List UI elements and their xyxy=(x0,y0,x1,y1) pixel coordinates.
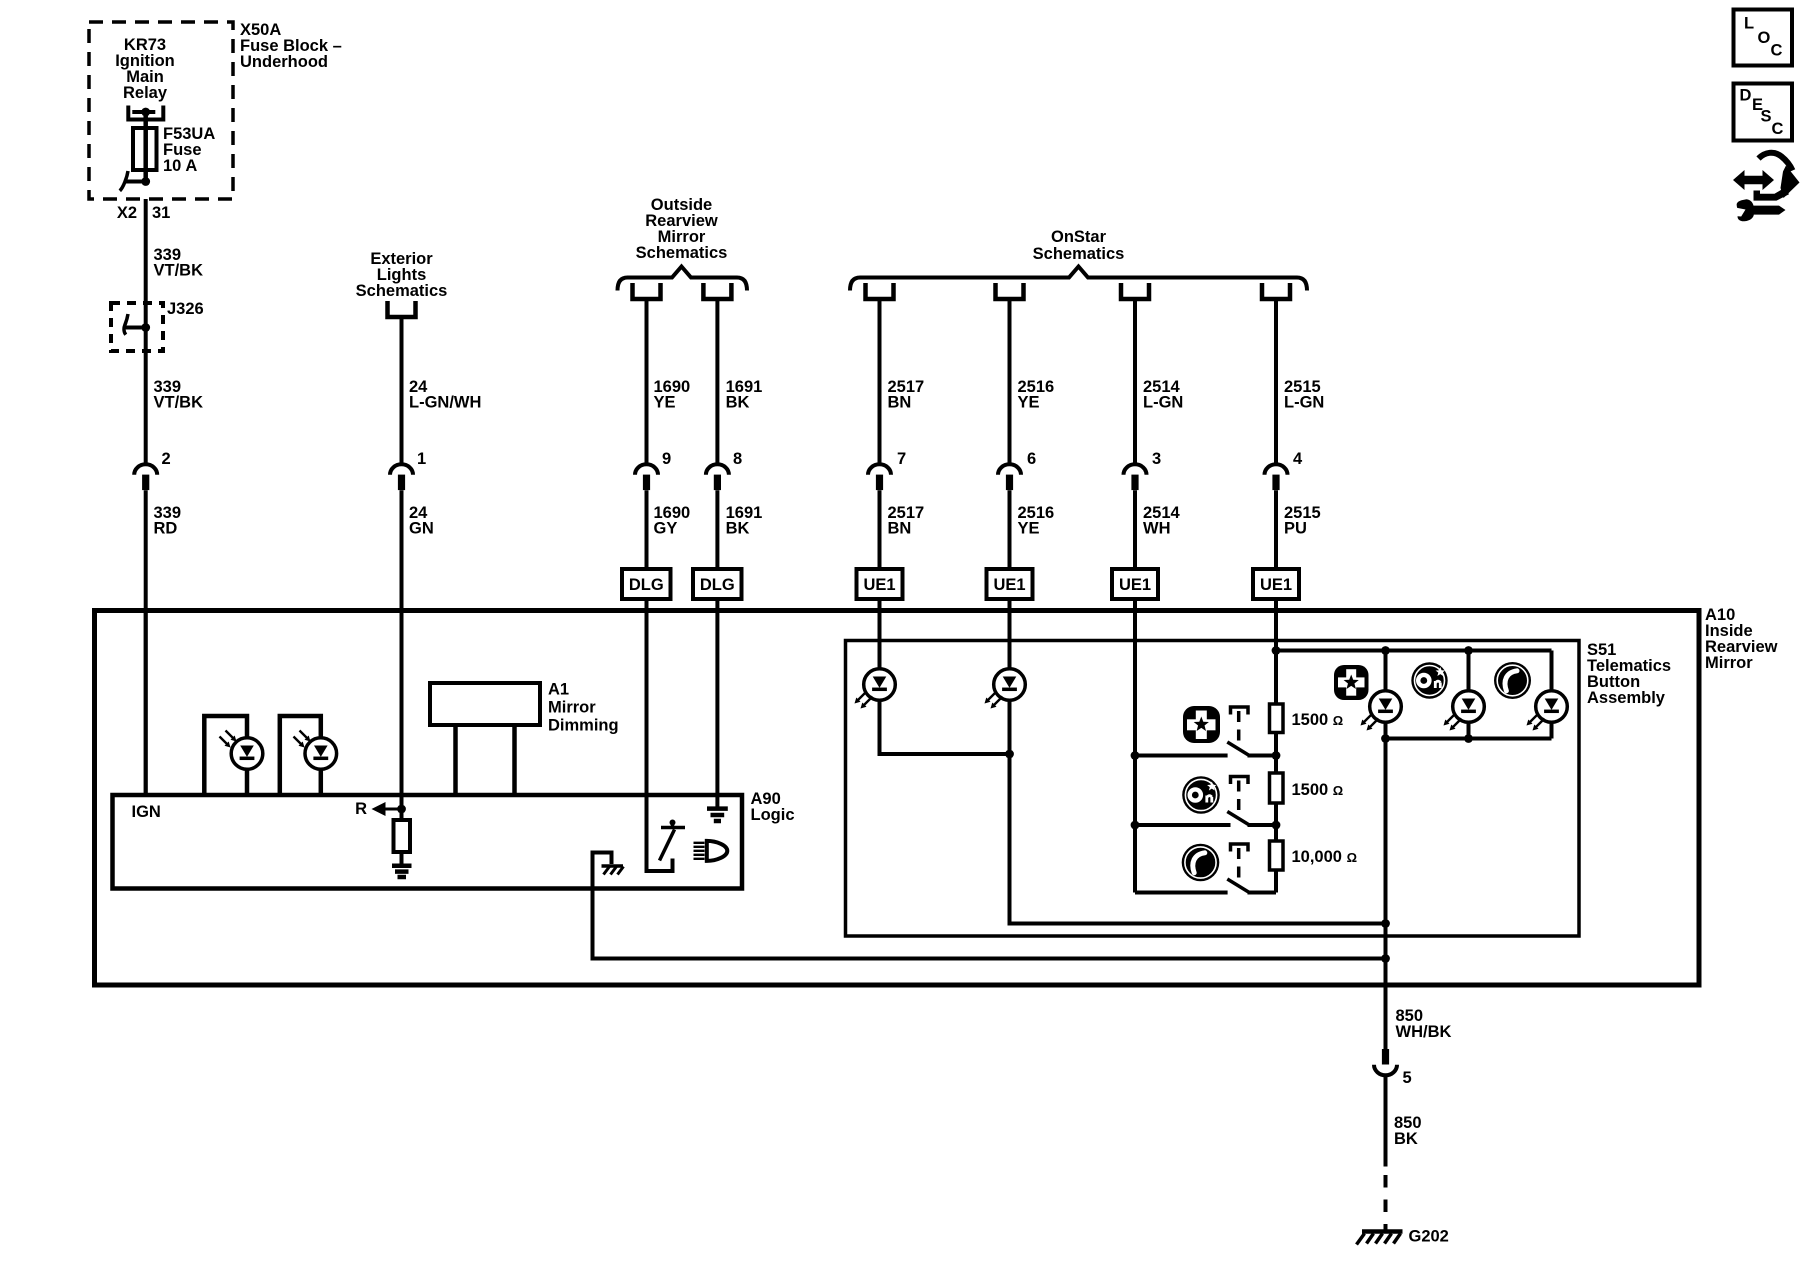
A90 logic box xyxy=(113,795,743,889)
fuse F53UA xyxy=(133,128,157,170)
connector DLG 1 xyxy=(622,569,671,599)
svg-text:Mirror: Mirror xyxy=(548,699,596,717)
connector pin 5 xyxy=(1374,1049,1397,1075)
brace mirror schematics xyxy=(618,267,748,291)
connector UE1 1 xyxy=(857,569,903,599)
LED 1 emit arrows xyxy=(855,692,873,709)
wire 2515 PU xyxy=(1274,490,1278,569)
node bus dot 1 xyxy=(1131,751,1140,760)
svg-text:C: C xyxy=(1772,120,1784,138)
photodiode PD2 housing xyxy=(280,716,321,795)
wire 2517 BN lower xyxy=(878,490,882,569)
wire 2516 into S51 xyxy=(1008,599,1012,669)
X50A fuse block name xyxy=(240,21,342,71)
connector pin 8 xyxy=(706,464,729,490)
resistor 1500 ohm 2 xyxy=(1270,773,1284,803)
wire 2516 YE xyxy=(1008,299,1012,465)
ground in A90 right xyxy=(707,809,728,821)
resistor in A90 xyxy=(400,813,404,820)
wire into mirror 1 xyxy=(647,599,673,871)
svg-text:PU: PU xyxy=(1284,520,1307,538)
wire IGN into A90 xyxy=(144,613,148,795)
headlamp icon in A90 xyxy=(694,841,728,861)
wire 2515 L-GN xyxy=(1274,299,1278,465)
DESC icon box xyxy=(1734,84,1793,141)
node LED2 junction xyxy=(1005,750,1014,759)
telltale icon phone xyxy=(1494,662,1531,699)
A1 mirror dimming box xyxy=(430,683,540,725)
svg-text:VT/BK: VT/BK xyxy=(154,262,204,280)
A10 labels xyxy=(1705,606,1778,672)
LED top rail xyxy=(1276,649,1552,653)
svg-text:L-GN: L-GN xyxy=(1143,394,1183,412)
svg-text:VT/BK: VT/BK xyxy=(154,394,204,412)
label 2517 BN xyxy=(888,378,925,412)
svg-text:BK: BK xyxy=(726,520,750,538)
resistor 10000 ohm xyxy=(1270,841,1284,870)
svg-text:7: 7 xyxy=(897,450,906,468)
ground in A90 under resistor xyxy=(392,866,412,877)
chassis ground wire from A90 to S51 xyxy=(593,853,1386,959)
LED 2 emit arrows xyxy=(985,692,1003,709)
fuse block X50A dashed box xyxy=(89,22,233,199)
splice clip symbol xyxy=(124,314,151,335)
node LED rail junction xyxy=(1272,646,1281,655)
label 2516 YE lower xyxy=(1018,504,1055,538)
svg-text:Dimming: Dimming xyxy=(548,717,619,735)
A10 inside rearview mirror box xyxy=(95,611,1700,986)
off-page bracket 2515 xyxy=(1262,283,1290,299)
connector pin 2 xyxy=(134,464,157,490)
label 339 RD xyxy=(154,504,182,538)
svg-text:Assembly: Assembly xyxy=(1587,689,1666,707)
wire 2514 WH xyxy=(1133,490,1137,569)
button 1 icon xyxy=(1183,706,1220,743)
LED 1 arrows xyxy=(1361,714,1379,731)
off-page bracket 1690 xyxy=(633,283,661,299)
LED indicator 1 xyxy=(1370,691,1402,723)
R arrow xyxy=(372,802,402,816)
svg-text:Schematics: Schematics xyxy=(636,244,728,262)
svg-text:1500 Ω: 1500 Ω xyxy=(1292,781,1344,799)
svg-text:BK: BK xyxy=(1394,1130,1418,1148)
switch 1 xyxy=(1227,707,1276,756)
svg-text:Logic: Logic xyxy=(751,806,795,824)
node chain dot 2 xyxy=(1272,821,1281,830)
LED 2 arrows xyxy=(1444,714,1462,731)
switch 2 xyxy=(1227,777,1276,826)
telltale icon OnStar xyxy=(1411,662,1447,698)
svg-text:L: L xyxy=(1744,15,1754,33)
telltale icon cross xyxy=(1334,665,1369,700)
svg-text:BN: BN xyxy=(888,394,912,412)
svg-text:RD: RD xyxy=(154,520,178,538)
connector pin 9 xyxy=(635,464,658,490)
chassis ground branch xyxy=(591,853,612,865)
connector pin 7 xyxy=(868,464,891,490)
svg-text:2: 2 xyxy=(162,450,171,468)
resistor 1500 ohm 1 xyxy=(1270,704,1284,733)
wire 1690 GY xyxy=(645,490,649,569)
A1 labels xyxy=(548,681,619,735)
svg-text:DLG: DLG xyxy=(629,576,664,594)
svg-text:Relay: Relay xyxy=(123,84,168,102)
label 24 L-GN/WH xyxy=(409,378,481,412)
connector pin 3 xyxy=(1124,464,1147,490)
svg-text:L-GN: L-GN xyxy=(1284,394,1324,412)
S51 telematics button assembly box xyxy=(846,641,1580,937)
svg-text:10,000 Ω: 10,000 Ω xyxy=(1292,848,1358,866)
mirror fold switch in A90 xyxy=(660,820,686,861)
svg-text:A1: A1 xyxy=(548,681,569,699)
svg-text:BK: BK xyxy=(726,394,750,412)
svg-text:C: C xyxy=(1771,42,1783,60)
wire 24 GN xyxy=(400,490,404,809)
svg-text:GY: GY xyxy=(654,520,678,538)
LED backlight 1 xyxy=(864,669,896,701)
svg-text:R: R xyxy=(355,800,367,818)
dashed wire to ground xyxy=(1384,1175,1388,1231)
chassis ground symbol xyxy=(602,866,624,875)
svg-text:WH: WH xyxy=(1143,520,1171,538)
wire LED1 to LED2 xyxy=(880,700,1010,754)
OnStar Schematics header xyxy=(1033,228,1125,263)
svg-text:L-GN/WH: L-GN/WH xyxy=(409,394,481,412)
label 1690 GY xyxy=(654,504,691,538)
svg-text:D: D xyxy=(1740,87,1752,105)
svg-text:UE1: UE1 xyxy=(863,576,895,594)
label 2514 L-GN xyxy=(1143,378,1183,412)
connector DLG 2 xyxy=(693,569,742,599)
wire LED2 down and right xyxy=(1010,700,1386,923)
LED indicator 2 drop xyxy=(1467,651,1471,691)
switch row 1 rail xyxy=(1135,754,1228,758)
wire 339 RD xyxy=(144,490,148,795)
off-page bracket 2517 xyxy=(866,283,894,299)
Outside Rearview Mirror Schematics header xyxy=(636,196,728,262)
svg-text:3: 3 xyxy=(1152,450,1161,468)
photodiode PD2 xyxy=(305,738,337,770)
off-page bracket 1691 xyxy=(703,283,731,299)
svg-text:5: 5 xyxy=(1403,1069,1412,1087)
svg-text:Mirror: Mirror xyxy=(1705,654,1753,672)
svg-text:YE: YE xyxy=(1018,520,1040,538)
wire 2517 BN xyxy=(878,299,882,465)
connector pin 6 xyxy=(998,464,1021,490)
fuse block labels xyxy=(115,36,175,102)
photodiode PD1 xyxy=(231,738,263,770)
svg-text:Schematics: Schematics xyxy=(1033,245,1125,263)
svg-text:10 A: 10 A xyxy=(163,157,197,175)
button 2 icon OnStar xyxy=(1182,776,1220,814)
svg-text:YE: YE xyxy=(1018,394,1040,412)
connector pin 4 xyxy=(1265,464,1288,490)
node R junction xyxy=(397,805,406,814)
wire 1691 BK lower xyxy=(715,490,719,569)
label 850 BK xyxy=(1394,1114,1422,1148)
svg-text:J326: J326 xyxy=(167,300,204,318)
wire 850 BK xyxy=(1384,1076,1388,1167)
navigation arrow icon xyxy=(1733,153,1800,201)
switch row 3 rail xyxy=(1135,891,1228,895)
node 850 junction 2 xyxy=(1381,954,1390,963)
connector UE1 3 xyxy=(1112,569,1158,599)
relay KR73 contact xyxy=(128,106,163,120)
LED indicator 3 drop xyxy=(1550,651,1554,691)
label 2514 WH xyxy=(1143,504,1181,538)
svg-text:UE1: UE1 xyxy=(1260,576,1292,594)
svg-text:1: 1 xyxy=(417,450,426,468)
svg-text:4: 4 xyxy=(1293,450,1303,468)
svg-text:8: 8 xyxy=(733,450,742,468)
svg-text:Underhood: Underhood xyxy=(240,53,328,71)
svg-text:UE1: UE1 xyxy=(1119,576,1151,594)
svg-text:YE: YE xyxy=(654,394,676,412)
S51 labels xyxy=(1587,641,1671,707)
wire 2514 L-GN xyxy=(1133,299,1137,465)
LOC icon box xyxy=(1734,10,1793,66)
svg-text:GN: GN xyxy=(409,520,434,538)
switch row 2 rail xyxy=(1135,823,1231,827)
LED bottom rail xyxy=(1386,737,1552,741)
wire 2515 resistor chain top xyxy=(1274,599,1278,704)
wire 850 main drop xyxy=(1384,739,1388,1050)
label 24 GN xyxy=(409,504,434,538)
label 339 VT/BK lower xyxy=(154,378,204,412)
svg-text:O: O xyxy=(1758,29,1771,47)
label 1691 BK xyxy=(726,378,763,412)
ground G202 xyxy=(1357,1232,1403,1245)
svg-text:IGN: IGN xyxy=(132,803,161,821)
svg-text:DLG: DLG xyxy=(700,576,735,594)
node 850 junction 1 xyxy=(1381,919,1390,928)
label 2515 PU xyxy=(1284,504,1321,538)
label 2516 YE xyxy=(1018,378,1055,412)
label 2515 L-GN xyxy=(1284,378,1324,412)
off-page bracket 2514 xyxy=(1121,283,1149,299)
wire 2517 into S51 xyxy=(878,599,882,669)
button 3 icon phone xyxy=(1182,844,1220,882)
svg-text:1500 Ω: 1500 Ω xyxy=(1292,711,1344,729)
off-page bracket wire 24 xyxy=(388,301,416,317)
LED 3 arrows xyxy=(1527,714,1545,731)
svg-text:X2: X2 xyxy=(117,204,137,222)
brace OnStar schematics xyxy=(850,267,1307,291)
terminal clip 31 xyxy=(120,171,150,191)
svg-text:Schematics: Schematics xyxy=(356,282,448,300)
wrench icon xyxy=(1737,199,1786,221)
svg-text:6: 6 xyxy=(1027,450,1036,468)
LED indicator 1 drop xyxy=(1384,651,1388,691)
wire 24 L-GN/WH xyxy=(400,317,404,465)
svg-text:31: 31 xyxy=(152,204,170,222)
photodiode PD2 light arrows xyxy=(294,731,311,748)
A1 pedestal xyxy=(456,725,515,795)
label 1691 BK lower xyxy=(726,504,763,538)
LED indicator 2 xyxy=(1453,691,1485,723)
fuse labels xyxy=(163,125,215,175)
wire 339 VT/BK upper xyxy=(144,199,148,465)
LED indicator 3 xyxy=(1536,691,1568,723)
node chain dot 1 xyxy=(1272,751,1281,760)
svg-text:9: 9 xyxy=(662,450,671,468)
node bus dot 2 xyxy=(1131,821,1140,830)
photodiode PD1 housing xyxy=(204,716,247,795)
wire 1690 YE xyxy=(645,299,649,465)
wire 2516 YE lower xyxy=(1008,490,1012,569)
switch 3 xyxy=(1227,844,1276,893)
A90 labels xyxy=(751,790,795,824)
svg-text:G202: G202 xyxy=(1409,1228,1449,1246)
label 850 WH/BK xyxy=(1396,1007,1452,1041)
svg-text:OnStar: OnStar xyxy=(1051,228,1107,246)
wire 2514 switch bus xyxy=(1133,599,1137,893)
svg-text:S: S xyxy=(1761,108,1772,126)
off-page bracket 2516 xyxy=(996,283,1024,299)
connector UE1 2 xyxy=(987,569,1033,599)
wire 1691 BK xyxy=(715,299,719,465)
svg-text:WH/BK: WH/BK xyxy=(1396,1023,1452,1041)
splice J326 dashed box xyxy=(111,303,163,351)
wire into mirror 2 xyxy=(715,599,719,807)
svg-text:BN: BN xyxy=(888,520,912,538)
label 339 VT/BK xyxy=(154,246,204,280)
photodiode PD1 light arrows xyxy=(220,731,237,748)
Exterior Lights Schematics header xyxy=(356,250,448,300)
connector UE1 4 xyxy=(1253,569,1299,599)
label 2517 BN lower xyxy=(888,504,925,538)
wire through fuse xyxy=(143,112,148,182)
svg-text:UE1: UE1 xyxy=(993,576,1025,594)
label 1690 YE xyxy=(654,378,691,412)
connector pin 1 xyxy=(390,464,413,490)
LED backlight 2 xyxy=(994,669,1026,701)
